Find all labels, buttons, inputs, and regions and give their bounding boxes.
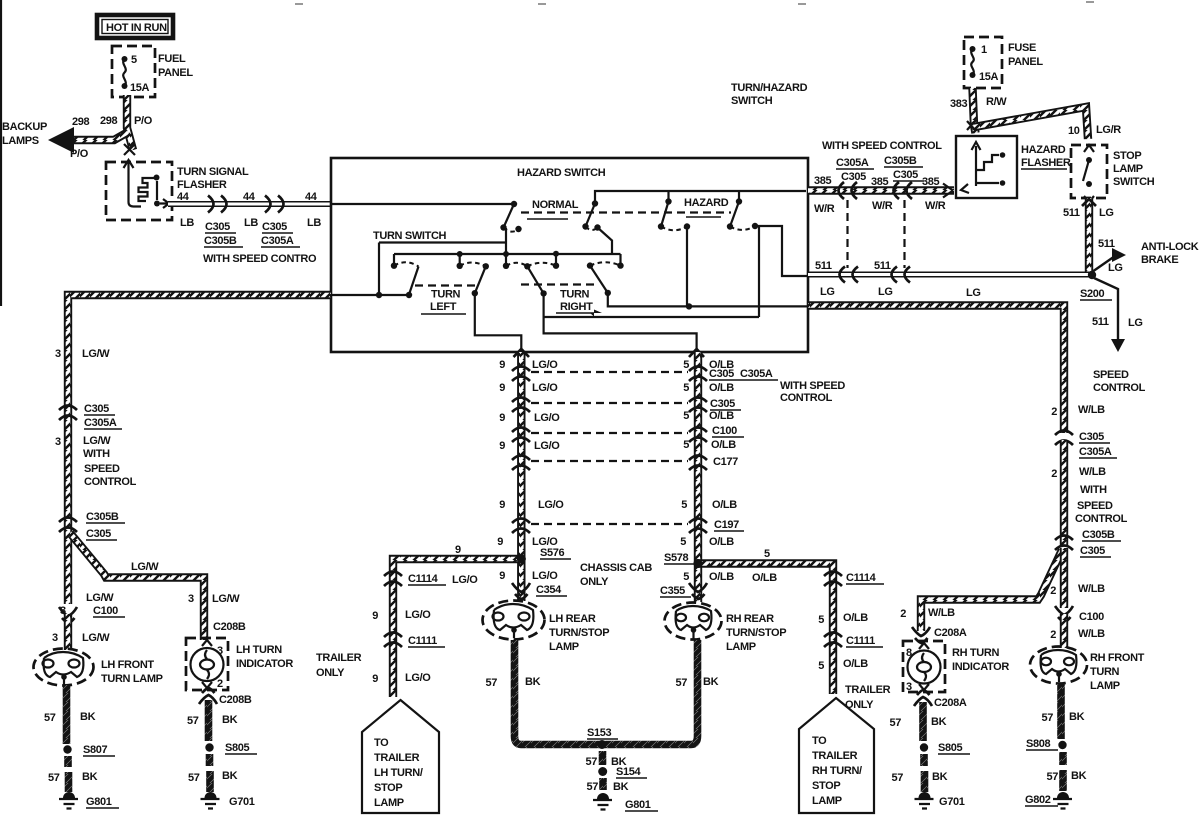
svg-text:LG/O: LG/O	[532, 359, 558, 371]
svg-text:W/LB: W/LB	[1078, 404, 1105, 416]
ground G802	[1053, 792, 1072, 809]
box bottom exit connector O/LB	[689, 349, 704, 357]
HOT IN RUN box	[97, 15, 173, 38]
turn signal flasher symbol	[124, 160, 170, 208]
svg-text:W/R: W/R	[872, 200, 893, 212]
splice S578	[694, 559, 703, 568]
RH turn indicator	[903, 641, 945, 692]
svg-text:9: 9	[497, 536, 503, 548]
svg-text:WITH: WITH	[83, 448, 110, 460]
turn-right output line W/LB	[608, 293, 808, 307]
svg-text:FLASHER: FLASHER	[177, 179, 227, 191]
svg-text:TURN/STOP: TURN/STOP	[549, 627, 609, 639]
hazard switch box	[331, 158, 808, 352]
ground G801	[59, 792, 78, 809]
page edge line	[0, 0, 2, 306]
LH turn indicator	[186, 638, 228, 690]
svg-text:9: 9	[499, 382, 505, 394]
svg-text:S578: S578	[664, 552, 689, 564]
wire 5 O/LB chain from hazard switch	[694, 352, 702, 602]
svg-text:57: 57	[1041, 712, 1053, 724]
splice S578 dot overlay	[694, 559, 703, 568]
svg-text:WITH SPEED CONTRO: WITH SPEED CONTRO	[203, 253, 317, 265]
ground G701 (RH)	[915, 792, 934, 809]
svg-text:SWITCH: SWITCH	[1113, 176, 1155, 188]
connector C100 (right chain)	[1055, 606, 1073, 622]
turn switch feed line	[331, 243, 507, 296]
svg-text:C197: C197	[714, 519, 739, 531]
svg-text:BK: BK	[932, 771, 948, 783]
H1 dropper to W/LB line	[686, 227, 688, 307]
fuse panel dashed box (right)	[964, 37, 1002, 88]
svg-text:O/LB: O/LB	[709, 536, 734, 548]
svg-text:BK: BK	[1069, 711, 1085, 723]
svg-text:P/O: P/O	[134, 115, 153, 127]
splice S805 (RH)	[920, 743, 928, 751]
svg-text:C305A: C305A	[1079, 446, 1112, 458]
svg-text:W/LB: W/LB	[1078, 583, 1105, 595]
stop lamp switch symbol	[1083, 145, 1094, 202]
svg-text:LG: LG	[966, 287, 981, 299]
svg-text:C305A: C305A	[84, 417, 117, 429]
svg-text:S808: S808	[1026, 738, 1051, 750]
svg-text:RH TURN: RH TURN	[952, 647, 999, 659]
svg-text:BK: BK	[82, 771, 98, 783]
svg-text:STOP: STOP	[812, 780, 840, 792]
connector C1111 (right)	[824, 633, 842, 648]
page tick marks	[295, 2, 1094, 4]
splice S576 dot overlay	[517, 555, 526, 564]
dashed link C305A pair	[846, 200, 848, 268]
arrow to BACKUP LAMPS	[48, 127, 74, 153]
svg-text:CONTROL: CONTROL	[1075, 513, 1128, 525]
svg-text:BK: BK	[222, 770, 238, 782]
wire S200 down to speed control	[1094, 278, 1118, 341]
svg-text:O/LB: O/LB	[709, 571, 734, 583]
svg-text:2: 2	[217, 678, 223, 690]
svg-text:LG/R: LG/R	[1096, 124, 1121, 136]
dashed link C305B pair	[903, 200, 905, 268]
svg-text:5: 5	[818, 660, 824, 672]
svg-text:9: 9	[499, 440, 505, 452]
wire W/LB from hazard switch right	[808, 306, 1064, 434]
svg-text:LH TURN: LH TURN	[236, 644, 282, 656]
svg-text:G801: G801	[625, 799, 651, 811]
svg-text:57: 57	[44, 712, 56, 724]
svg-text:57: 57	[675, 677, 687, 689]
svg-text:C305B: C305B	[86, 511, 119, 523]
svg-text:STOP: STOP	[1113, 150, 1141, 162]
RH rear turn/stop lamp	[665, 603, 722, 640]
svg-text:CONTROL: CONTROL	[84, 476, 137, 488]
connector on 511 (C305A)	[840, 267, 859, 283]
LH rear turn/stop lamp	[483, 601, 545, 640]
svg-text:NORMAL: NORMAL	[532, 199, 579, 211]
svg-text:5: 5	[683, 571, 689, 583]
svg-text:ANTI-LOCK: ANTI-LOCK	[1141, 241, 1199, 253]
bus line B1	[394, 254, 621, 266]
svg-text:5: 5	[683, 439, 689, 451]
svg-text:C1111: C1111	[846, 635, 875, 647]
svg-text:O/LB: O/LB	[843, 658, 868, 670]
svg-text:511: 511	[815, 260, 832, 272]
connector C305/C305A (left chain)	[59, 406, 77, 421]
svg-text:LG/W: LG/W	[212, 593, 240, 605]
N2 diagonal to bus	[598, 228, 613, 255]
wire 511 LG plain from hazard switch to S200	[808, 272, 1092, 278]
svg-text:BK: BK	[931, 716, 947, 728]
svg-text:C177: C177	[713, 456, 738, 468]
wire 57 BK below LH indicator	[205, 700, 213, 741]
svg-text:BK: BK	[525, 676, 541, 688]
connector C100 (left chain)	[59, 607, 77, 623]
svg-text:9: 9	[499, 359, 505, 371]
junction arrow marks at flasher input	[124, 144, 135, 155]
svg-text:C208B: C208B	[219, 694, 252, 706]
svg-text:S576: S576	[540, 547, 565, 559]
svg-text:LG: LG	[1099, 207, 1114, 219]
svg-text:57: 57	[188, 772, 200, 784]
splice S153	[598, 740, 607, 749]
svg-text:C100: C100	[712, 425, 737, 437]
pentagon TO TRAILER LH TURN/STOP LAMP	[362, 700, 439, 813]
svg-text:9: 9	[372, 610, 378, 622]
svg-text:5: 5	[818, 614, 824, 626]
connector C305B/C305 (left chain)	[59, 518, 77, 533]
svg-text:INDICATOR: INDICATOR	[952, 661, 1009, 673]
svg-text:LAMPS: LAMPS	[2, 135, 39, 147]
svg-text:WITH SPEED CONTROL: WITH SPEED CONTROL	[822, 140, 942, 152]
svg-text:511: 511	[1092, 316, 1109, 328]
svg-text:5: 5	[683, 410, 689, 422]
svg-text:R/W: R/W	[986, 96, 1007, 108]
connector C208A above RH indicator	[912, 627, 930, 643]
turn-left wiper blade	[409, 267, 419, 295]
wire to anti-lock brake	[1092, 256, 1115, 272]
turn-left output blade	[475, 266, 486, 293]
svg-text:57: 57	[48, 772, 60, 784]
svg-text:57: 57	[889, 717, 901, 729]
svg-text:C305: C305	[710, 398, 735, 410]
N1 dropper	[505, 228, 507, 266]
wire branch to RH turn indicator	[921, 550, 1062, 631]
svg-text:15A: 15A	[130, 82, 150, 94]
fuse F2 1 15A	[970, 44, 999, 83]
svg-text:LAMP: LAMP	[726, 641, 756, 653]
arrow down speed control	[1111, 339, 1125, 352]
svg-text:LG/O: LG/O	[532, 570, 558, 582]
svg-text:LG/W: LG/W	[86, 592, 114, 604]
connector C305A/C305 on 385	[839, 182, 858, 199]
connectors O/LB chain	[689, 367, 707, 534]
wire 9 LG/O S576 to trailer branch	[393, 559, 521, 697]
svg-text:LG: LG	[1128, 317, 1143, 329]
dashed links between chains	[531, 371, 688, 373]
connector C1111 (left)	[384, 633, 402, 648]
hazard top line from W/R input	[595, 191, 806, 204]
svg-text:BRAKE: BRAKE	[1141, 254, 1178, 266]
svg-text:298: 298	[100, 115, 118, 127]
svg-text:S807: S807	[83, 744, 108, 756]
svg-text:BK: BK	[1071, 770, 1087, 782]
svg-text:C1114: C1114	[408, 573, 439, 585]
svg-text:CONTROL: CONTROL	[1093, 382, 1146, 394]
svg-text:9: 9	[499, 412, 505, 424]
svg-text:C305: C305	[84, 403, 109, 415]
svg-text:LAMP: LAMP	[812, 795, 842, 807]
svg-text:3: 3	[188, 593, 194, 605]
svg-text:15A: 15A	[979, 71, 999, 83]
wire 298 P/O from fuel panel down to flasher	[127, 95, 133, 150]
svg-text:TRAILER: TRAILER	[812, 750, 858, 762]
wire 57 BK below LH front lamp	[63, 685, 71, 744]
svg-text:RH TURN/: RH TURN/	[812, 765, 862, 777]
wire 9 LG/O chain from hazard switch	[517, 352, 525, 601]
H2 riser from turn-left line	[544, 226, 759, 317]
svg-text:57: 57	[891, 772, 903, 784]
svg-text:LG/O: LG/O	[534, 412, 560, 424]
svg-text:WITH SPEED: WITH SPEED	[780, 380, 845, 392]
wire 57 BK below RH indicator	[919, 702, 927, 741]
normal position dashed line	[521, 211, 731, 213]
turn-left output wire to LG/O	[475, 293, 522, 352]
svg-text:G701: G701	[229, 796, 255, 808]
svg-text:LB: LB	[307, 217, 321, 229]
wire branch to backup lamps	[66, 132, 128, 140]
svg-text:LAMP: LAMP	[1113, 163, 1143, 175]
svg-text:BACKUP: BACKUP	[2, 121, 47, 133]
connector C355	[689, 583, 707, 599]
svg-text:TO: TO	[374, 737, 389, 749]
svg-text:3: 3	[55, 348, 61, 360]
svg-text:LH TURN/: LH TURN/	[374, 767, 423, 779]
svg-text:C305: C305	[205, 221, 230, 233]
hazard flasher symbol	[961, 142, 1005, 193]
svg-text:C305: C305	[1079, 431, 1104, 443]
svg-text:FLASHER: FLASHER	[1021, 157, 1071, 169]
wire 383 R/W down from fuse	[973, 88, 976, 133]
turn switch contact row dots	[391, 263, 397, 269]
connector C1114 (right)	[824, 572, 842, 587]
wire 385 W/R from hazard switch to flasher	[808, 186, 954, 194]
svg-text:W/R: W/R	[925, 200, 946, 212]
svg-text:RIGHT: RIGHT	[560, 301, 593, 313]
svg-text:TRAILER: TRAILER	[374, 752, 420, 764]
svg-text:511: 511	[1098, 238, 1115, 250]
svg-text:LG/O: LG/O	[405, 672, 431, 684]
svg-text:C208A: C208A	[934, 697, 967, 709]
svg-text:O/LB: O/LB	[712, 499, 737, 511]
splice S807	[63, 745, 71, 753]
pentagon TO TRAILER RH TURN/STOP LAMP	[799, 698, 874, 813]
svg-text:TURN SIGNAL: TURN SIGNAL	[177, 166, 249, 178]
svg-text:44: 44	[305, 191, 318, 203]
svg-text:C305: C305	[262, 221, 287, 233]
LH front turn lamp	[34, 649, 94, 686]
svg-text:O/LB: O/LB	[709, 410, 734, 422]
svg-text:2: 2	[1050, 629, 1056, 641]
svg-text:INDICATOR: INDICATOR	[236, 658, 293, 670]
svg-text:C305: C305	[841, 171, 866, 183]
wire 5 O/LB S578 to trailer branch	[698, 564, 833, 695]
svg-text:C100: C100	[93, 605, 118, 617]
svg-text:S200: S200	[1080, 288, 1105, 300]
wire branch to LH turn indicator	[70, 533, 204, 640]
svg-text:LG/W: LG/W	[82, 632, 110, 644]
wire W/LB to C100	[1060, 548, 1068, 608]
svg-text:S805: S805	[938, 742, 963, 754]
svg-text:HAZARD SWITCH: HAZARD SWITCH	[517, 167, 606, 179]
svg-text:O/LB: O/LB	[843, 612, 868, 624]
svg-text:5: 5	[681, 499, 687, 511]
wire 57 BK to ground G802	[1059, 752, 1067, 791]
turn left position dashed line	[415, 284, 477, 286]
svg-text:G801: G801	[86, 796, 112, 808]
svg-text:9: 9	[372, 673, 378, 685]
H2 output to 511 LG	[755, 226, 808, 276]
svg-text:LG/O: LG/O	[405, 609, 431, 621]
wire W/LB mid right	[1060, 440, 1068, 546]
splice S576	[517, 555, 526, 564]
connector C208B below indicator	[199, 688, 217, 704]
svg-text:SPEED: SPEED	[84, 463, 120, 475]
wire 57 BK S153 to S154	[599, 751, 607, 765]
svg-text:385: 385	[922, 176, 940, 188]
svg-text:LEFT: LEFT	[430, 301, 457, 313]
connectors LG/O chain	[512, 367, 530, 534]
svg-text:PANEL: PANEL	[158, 67, 193, 79]
svg-text:HAZARD: HAZARD	[684, 197, 729, 209]
svg-text:57: 57	[585, 756, 597, 768]
wire 44 LB to hazard switch	[168, 201, 331, 207]
svg-text:SPEED: SPEED	[1093, 369, 1129, 381]
wire 57 BK to ground G801	[64, 756, 72, 792]
svg-text:C305A: C305A	[740, 368, 773, 380]
svg-text:C208A: C208A	[934, 627, 967, 639]
svg-text:BK: BK	[80, 711, 96, 723]
svg-text:HOT IN RUN: HOT IN RUN	[106, 22, 167, 34]
svg-text:44: 44	[243, 191, 256, 203]
svg-text:TRAILER: TRAILER	[316, 652, 362, 664]
connector on 511 (C305B)	[892, 267, 911, 283]
svg-text:LG/O: LG/O	[452, 574, 478, 586]
splice S808	[1058, 741, 1066, 749]
svg-text:LB: LB	[180, 217, 194, 229]
svg-text:44: 44	[177, 191, 190, 203]
wire 57 BK rear lamps to S153	[515, 640, 698, 745]
svg-text:PANEL: PANEL	[1008, 56, 1043, 68]
svg-text:2: 2	[900, 608, 906, 620]
svg-text:LH REAR: LH REAR	[549, 613, 596, 625]
svg-text:LG: LG	[878, 286, 893, 298]
svg-text:C355: C355	[660, 585, 685, 597]
svg-text:G701: G701	[939, 796, 965, 808]
svg-text:TURN: TURN	[560, 289, 590, 301]
svg-text:57: 57	[187, 715, 199, 727]
connector C354	[512, 583, 530, 599]
svg-text:WITH: WITH	[1080, 484, 1107, 496]
svg-text:1: 1	[981, 44, 987, 56]
svg-text:P/O: P/O	[70, 148, 89, 160]
svg-text:LB: LB	[244, 217, 258, 229]
svg-text:TRAILER: TRAILER	[845, 684, 891, 696]
svg-text:W/LB: W/LB	[1079, 466, 1106, 478]
svg-text:LG/W: LG/W	[82, 348, 110, 360]
svg-text:LAMP: LAMP	[374, 797, 404, 809]
wire branch 10 LG/R to stop lamp switch	[974, 107, 1088, 139]
svg-text:TO: TO	[812, 735, 827, 747]
svg-text:3: 3	[906, 681, 912, 693]
connector C1114 (left)	[384, 572, 402, 587]
svg-text:57: 57	[586, 781, 598, 793]
svg-text:C100: C100	[1079, 611, 1104, 623]
svg-text:O/LB: O/LB	[711, 439, 736, 451]
svg-text:TURN/HAZARD: TURN/HAZARD	[731, 82, 808, 94]
wire W/LB to RH front lamp	[1060, 614, 1068, 648]
connector C208A below indicator	[914, 690, 932, 706]
svg-text:5: 5	[764, 548, 770, 560]
svg-text:C305: C305	[893, 169, 918, 181]
svg-text:2: 2	[1050, 585, 1056, 597]
svg-text:W/LB: W/LB	[928, 607, 955, 619]
svg-text:S805: S805	[225, 742, 250, 754]
svg-text:SWITCH: SWITCH	[731, 95, 773, 107]
ground G801 (center)	[593, 793, 612, 810]
turn-left/hazard output wire to O/LB	[544, 293, 697, 352]
wire 57 BK to ground G701 (RH)	[920, 754, 928, 792]
svg-text:RH FRONT: RH FRONT	[1090, 652, 1145, 664]
svg-text:C305B: C305B	[1082, 529, 1115, 541]
RH front turn lamp	[1030, 647, 1087, 684]
svg-text:383: 383	[950, 98, 968, 110]
stop lamp switch dashed box	[1071, 145, 1107, 198]
svg-text:9: 9	[455, 544, 461, 556]
svg-text:3: 3	[55, 436, 61, 448]
svg-text:SPEED: SPEED	[1077, 500, 1113, 512]
wire LG/W from hazard switch left, down left side	[68, 295, 331, 604]
svg-text:8: 8	[906, 647, 912, 659]
hazard contact H2	[727, 198, 758, 230]
ground G701	[201, 792, 220, 809]
svg-text:C305: C305	[1080, 545, 1105, 557]
svg-text:5: 5	[683, 382, 689, 394]
junction arrows at flasher input	[967, 121, 975, 130]
svg-text:LG/O: LG/O	[532, 382, 558, 394]
turn right position dashed line	[521, 283, 596, 285]
svg-text:LG/O: LG/O	[538, 499, 564, 511]
svg-text:C1111: C1111	[408, 635, 437, 647]
connector C305/C305A on wire 44	[265, 196, 284, 213]
svg-text:CONTROL: CONTROL	[780, 392, 833, 404]
wire 57 BK below RH front lamp	[1057, 683, 1065, 739]
fuse panel (fuel panel) dashed box	[112, 46, 155, 97]
svg-text:TURN: TURN	[1090, 666, 1120, 678]
svg-text:LG/W: LG/W	[83, 435, 111, 447]
svg-text:5: 5	[680, 536, 686, 548]
normal contact N1	[500, 201, 521, 232]
splice S154	[598, 767, 607, 776]
wire 44 feed inside box	[331, 203, 514, 205]
svg-text:ONLY: ONLY	[580, 576, 609, 588]
fuse F1 5 15A	[122, 54, 150, 94]
svg-text:57: 57	[485, 677, 497, 689]
splice S200	[1088, 271, 1096, 279]
svg-text:9: 9	[499, 570, 505, 582]
svg-text:C305: C305	[86, 528, 111, 540]
svg-text:TURN: TURN	[431, 289, 461, 301]
svg-text:C305: C305	[709, 368, 734, 380]
stop switch exit mark	[1082, 199, 1096, 206]
